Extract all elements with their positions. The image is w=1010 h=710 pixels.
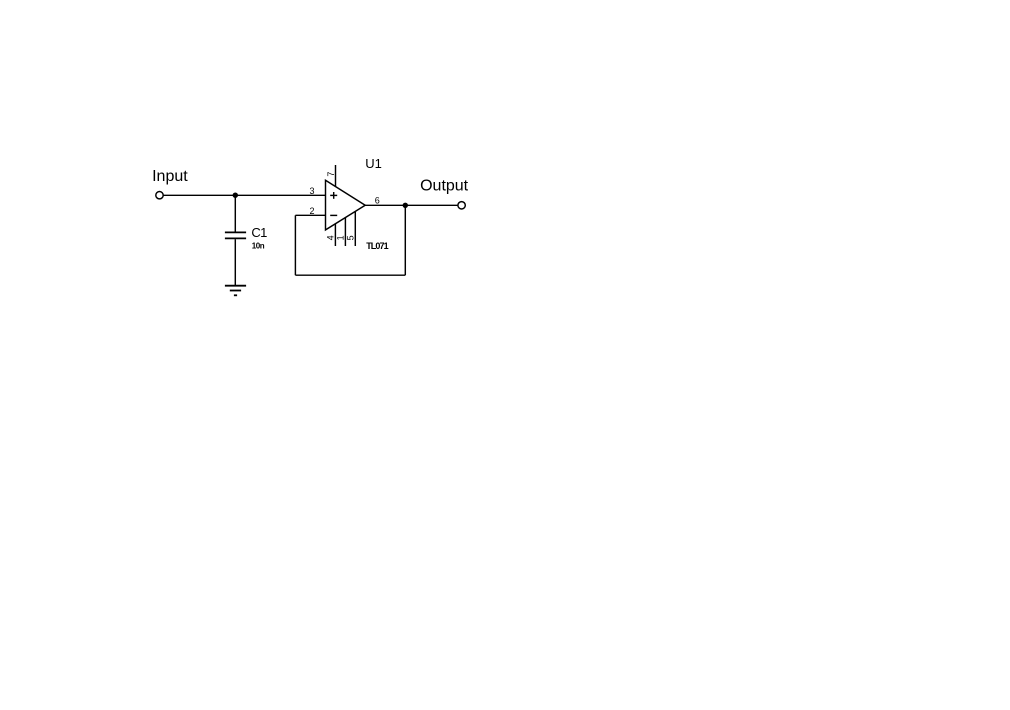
svg-text:3: 3 (310, 186, 315, 196)
wire op-amp output pin 6 (365, 204, 458, 206)
svg-text:7: 7 (326, 172, 336, 177)
svg-text:1: 1 (336, 235, 346, 240)
op-amp U1 (326, 180, 366, 230)
wire junction to op-amp pin 3 (235, 194, 325, 196)
junction output node (403, 203, 408, 208)
svg-text:Input: Input (152, 168, 188, 185)
junction input node (233, 193, 238, 198)
op-amp plus input marking (330, 192, 337, 199)
svg-text:TL071: TL071 (366, 241, 388, 251)
svg-text:6: 6 (375, 195, 380, 205)
wire feedback left vertical (294, 215, 296, 275)
svg-text:C1: C1 (251, 225, 267, 240)
svg-text:Output: Output (420, 178, 469, 195)
wire feedback right vertical (404, 205, 406, 275)
svg-text:2: 2 (310, 206, 315, 216)
pin 2 wire (295, 214, 325, 216)
pin 7 wire (V+) (335, 165, 337, 187)
wire feedback bottom (295, 274, 405, 276)
pin 1 wire (344, 218, 346, 246)
wire junction down to C1 (234, 195, 236, 231)
terminal Input (156, 192, 163, 199)
svg-text:U1: U1 (365, 156, 382, 171)
wire input to junction (163, 194, 235, 196)
svg-text:10n: 10n (252, 241, 265, 250)
terminal Output (458, 202, 465, 209)
op-amp minus input marking (330, 214, 337, 216)
wire C1 to ground (234, 239, 236, 285)
ground (225, 286, 246, 296)
pin 4 wire (334, 224, 336, 246)
svg-text:4: 4 (326, 235, 336, 240)
pin 5 wire (354, 212, 356, 247)
svg-text:5: 5 (346, 235, 356, 240)
capacitor C1 (225, 232, 246, 238)
